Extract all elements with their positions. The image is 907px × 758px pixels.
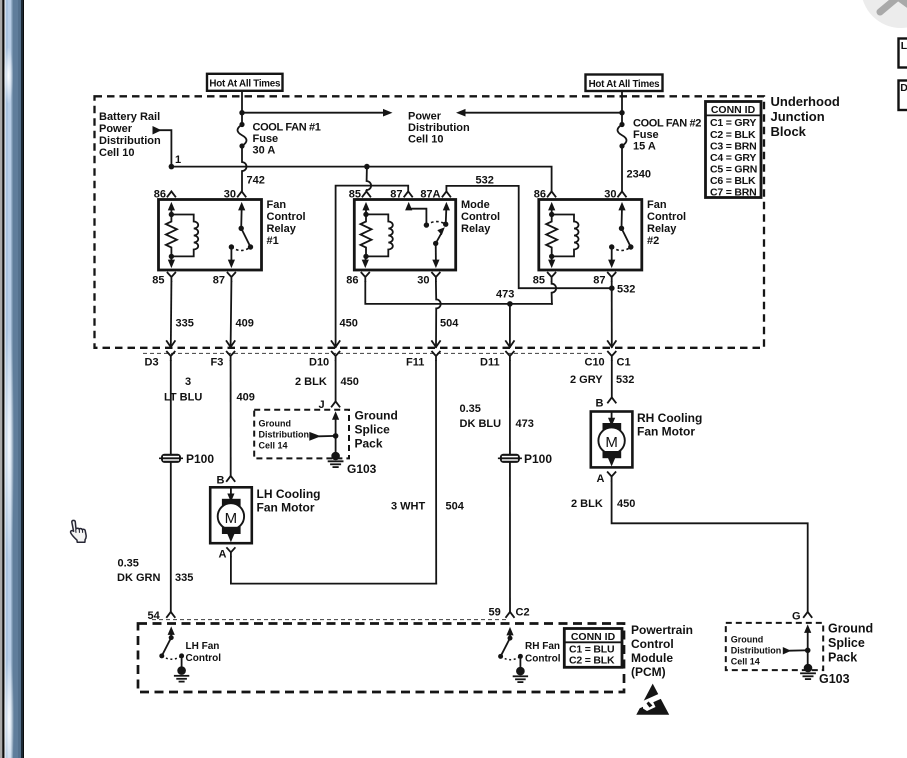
svg-text:2 BLK: 2 BLK	[295, 376, 327, 388]
svg-text:30: 30	[604, 189, 616, 201]
svg-text:C10: C10	[585, 357, 605, 369]
ground G103 (splice 2)	[801, 664, 815, 679]
wire: power distribution feed right with arrow	[242, 112, 384, 114]
svg-text:Battery Rail: Battery Rail	[99, 111, 160, 123]
pin D10	[331, 351, 340, 361]
svg-text:473: 473	[496, 289, 514, 301]
svg-text:Distribution: Distribution	[99, 135, 161, 147]
svg-text:DK GRN: DK GRN	[117, 572, 160, 584]
pin G	[803, 612, 812, 618]
svg-text:LT BLU: LT BLU	[164, 392, 202, 404]
node: Hot At All Times label 1	[207, 74, 283, 91]
svg-text:Control: Control	[186, 653, 222, 664]
svg-text:CONN ID: CONN ID	[571, 631, 616, 643]
svg-text:A: A	[597, 473, 605, 485]
svg-text:Control: Control	[267, 211, 306, 223]
svg-text:Junction: Junction	[771, 109, 825, 124]
grommet P100 left	[159, 454, 183, 463]
svg-text:504: 504	[446, 501, 465, 513]
svg-text:Control: Control	[631, 637, 674, 651]
fuse F2 COOL FAN #2 15A	[621, 91, 623, 125]
ground G103 (splice 1)	[329, 452, 343, 467]
svg-text:C7 = BRN: C7 = BRN	[710, 187, 757, 199]
svg-text:15 A: 15 A	[633, 141, 656, 153]
LH cooling fan motor M1	[210, 487, 252, 543]
svg-text:Fan Motor: Fan Motor	[257, 501, 315, 515]
wire: RH motor A down, right, down to pin G	[612, 482, 808, 612]
svg-text:742: 742	[247, 175, 265, 187]
splice pack 2 internals	[804, 624, 811, 633]
svg-text:#1: #1	[267, 235, 279, 247]
wire: relay K2 85 down with hop, to 473 line	[551, 282, 553, 284]
svg-text:Power: Power	[99, 123, 133, 135]
svg-text:Relay: Relay	[267, 223, 297, 235]
node 1	[169, 164, 175, 170]
wire: Hot1 down to fuse F1	[241, 91, 243, 125]
relay K1 pin 87	[227, 272, 236, 282]
svg-text:P100: P100	[186, 452, 214, 466]
svg-text:Ground: Ground	[355, 409, 398, 423]
mode relay pin 87A	[442, 191, 451, 197]
wire 335: relay K1 85 to D3	[170, 282, 173, 347]
wire 450: horizontal to mode relay 87, down to D10	[336, 186, 409, 347]
svg-text:1: 1	[175, 154, 181, 166]
pin 54	[166, 612, 175, 618]
svg-text:30 A: 30 A	[253, 145, 276, 157]
wire: D11 down to pin 59/C2	[509, 361, 511, 612]
wire: LH motor A down, right to 504 vertical	[231, 557, 436, 583]
bus wire node1 to relay K2 pin 86	[171, 167, 551, 191]
wire: tap down to mode relay 85 with hop	[366, 167, 368, 181]
svg-text:D: D	[900, 82, 907, 94]
splice arrow S2	[783, 647, 791, 655]
svg-text:2340: 2340	[627, 169, 651, 181]
svg-text:Pack: Pack	[828, 651, 857, 665]
RH cooling fan motor M2	[591, 412, 633, 468]
node 532	[609, 285, 615, 291]
wire 409: relay K1 87 to F3	[230, 282, 233, 347]
pin J	[331, 401, 340, 407]
svg-text:C1: C1	[617, 357, 631, 369]
svg-text:Distribution: Distribution	[408, 122, 470, 134]
svg-text:Cell 10: Cell 10	[99, 147, 134, 159]
svg-text:Underhood: Underhood	[771, 94, 840, 109]
grommet P100 right	[498, 454, 522, 463]
svg-text:COOL FAN #2: COOL FAN #2	[633, 118, 701, 130]
fuse F1 COOL FAN #1 30A	[238, 122, 247, 149]
svg-text:0.35: 0.35	[460, 403, 481, 415]
LH fan control driver Q1	[159, 626, 188, 681]
svg-text:87: 87	[390, 189, 402, 201]
wire 504: mode 30 down to F11 with hop	[435, 282, 437, 299]
svg-text:Control: Control	[461, 211, 500, 223]
pin 59 / C2	[506, 612, 515, 618]
svg-text:Fuse: Fuse	[253, 133, 279, 145]
relay K2 pin 87	[607, 272, 616, 282]
LH motor pin B	[226, 476, 235, 482]
battery rail feed arrow	[153, 126, 162, 135]
Powertrain Control Module boundary	[138, 624, 624, 693]
svg-text:C5 = GRN: C5 = GRN	[710, 164, 757, 176]
pin D3	[166, 351, 175, 361]
wire: F3 down to LH motor B	[230, 361, 232, 475]
svg-text:Hot At All Times: Hot At All Times	[209, 78, 281, 89]
scroll-top button (top right, cut)	[861, 0, 907, 28]
svg-text:Ground: Ground	[259, 419, 292, 429]
svg-text:M: M	[225, 510, 238, 527]
svg-text:86: 86	[534, 189, 546, 201]
svg-text:Control: Control	[647, 211, 686, 223]
CONN ID table (junction block)	[706, 102, 762, 199]
wire 532: 87A up-right-down to node 532	[446, 186, 611, 288]
svg-text:Fan Motor: Fan Motor	[637, 425, 695, 439]
wire 2340: fuse F2 to relay K2 pin 30	[621, 146, 623, 191]
svg-text:Relay: Relay	[647, 223, 677, 235]
svg-text:COOL FAN #1: COOL FAN #1	[253, 122, 321, 134]
svg-text:C1 = GRY: C1 = GRY	[710, 117, 756, 129]
svg-text:30: 30	[224, 189, 236, 201]
Underhood Junction Block boundary	[95, 96, 765, 347]
mouse cursor	[71, 520, 87, 542]
svg-text:504: 504	[440, 318, 459, 330]
svg-text:87A: 87A	[420, 189, 440, 201]
svg-text:DK BLU: DK BLU	[460, 418, 502, 430]
wire 473 horizontal: mode 86 to relay K2 85	[365, 282, 552, 304]
svg-text:86: 86	[346, 275, 358, 287]
svg-text:Fan: Fan	[267, 199, 287, 211]
svg-text:G: G	[792, 611, 801, 623]
svg-text:CONN ID: CONN ID	[711, 104, 756, 116]
svg-text:450: 450	[340, 318, 358, 330]
svg-text:Mode: Mode	[461, 199, 490, 211]
svg-text:B: B	[217, 475, 225, 487]
svg-text:Ground: Ground	[731, 635, 764, 645]
svg-text:LH Cooling: LH Cooling	[257, 487, 321, 501]
svg-text:Distribution: Distribution	[731, 646, 782, 656]
svg-text:Ground: Ground	[828, 622, 873, 636]
wire: power distribution feed left with arrow	[464, 112, 622, 114]
svg-text:C6 = BLK: C6 = BLK	[710, 175, 756, 187]
svg-text:Power: Power	[408, 111, 442, 123]
PCM connector face line	[152, 619, 506, 621]
RH fan control driver Q2	[498, 627, 527, 682]
svg-text:M: M	[605, 434, 618, 451]
relay K2 pin 86	[547, 191, 556, 197]
svg-text:D11: D11	[480, 357, 500, 369]
pin F3	[226, 351, 235, 361]
svg-text:85: 85	[152, 275, 164, 287]
svg-text:(PCM): (PCM)	[631, 665, 666, 679]
ground splice pack 1 box	[254, 410, 349, 459]
svg-text:335: 335	[175, 572, 193, 584]
ESD warning symbol	[635, 684, 671, 715]
svg-text:3 WHT: 3 WHT	[391, 501, 426, 513]
relay K2 pin 85	[547, 272, 556, 282]
pin D11	[505, 351, 514, 361]
svg-text:86: 86	[154, 189, 166, 201]
svg-text:473: 473	[516, 418, 534, 430]
svg-text:54: 54	[148, 610, 161, 622]
wire 504 lower: F11 down to corner	[435, 361, 437, 584]
mode relay pin 86	[361, 272, 370, 282]
svg-text:87: 87	[213, 275, 225, 287]
svg-text:A: A	[219, 549, 227, 561]
node 473	[507, 301, 513, 307]
svg-text:Powertrain: Powertrain	[631, 623, 693, 637]
node dot at fuse F1 top	[239, 110, 244, 115]
mode relay pin 87	[404, 191, 413, 197]
wire: D10 down to pin J (splice pack)	[335, 361, 337, 401]
svg-text:87: 87	[593, 275, 605, 287]
svg-text:LH Fan: LH Fan	[186, 641, 220, 652]
svg-text:Cell 10: Cell 10	[408, 134, 443, 146]
relay K2 pin 30	[618, 191, 627, 197]
svg-text:0.35: 0.35	[118, 558, 139, 570]
svg-text:Distribution: Distribution	[259, 430, 310, 440]
svg-text:C3 = BRN: C3 = BRN	[710, 140, 757, 152]
splice arrow S1	[309, 432, 321, 441]
svg-text:P100: P100	[524, 452, 552, 466]
svg-text:409: 409	[236, 318, 254, 330]
svg-text:Cell 14: Cell 14	[259, 441, 288, 451]
svg-text:409: 409	[237, 392, 255, 404]
svg-text:450: 450	[341, 376, 359, 388]
right edge panel boxes	[899, 39, 907, 68]
svg-text:L: L	[901, 40, 907, 52]
pin C10 / C1	[607, 351, 616, 361]
RH motor pin A	[607, 472, 616, 482]
LH motor pin A	[226, 547, 235, 557]
relay K1 Fan Control Relay #1	[159, 200, 262, 271]
svg-text:C2 = BLK: C2 = BLK	[569, 655, 615, 667]
mode control relay K3	[354, 200, 455, 271]
ground splice pack 2 box	[726, 623, 823, 670]
svg-text:Cell 14: Cell 14	[731, 657, 760, 667]
svg-text:85: 85	[349, 189, 361, 201]
svg-text:Hot At All Times: Hot At All Times	[589, 79, 661, 90]
svg-text:532: 532	[476, 175, 494, 187]
svg-text:F11: F11	[406, 357, 424, 369]
svg-text:Module: Module	[631, 651, 673, 665]
svg-text:Splice: Splice	[828, 636, 865, 650]
svg-text:RH Fan: RH Fan	[525, 641, 560, 652]
svg-text:F3: F3	[211, 357, 224, 369]
wire: node 473 down to D11	[509, 304, 511, 347]
svg-text:B: B	[596, 398, 604, 410]
svg-text:Splice: Splice	[355, 423, 391, 437]
svg-text:Fuse: Fuse	[633, 129, 659, 141]
svg-text:Fan: Fan	[647, 199, 667, 211]
splice pack 1 internals	[332, 411, 339, 420]
connector face line (junction block bottom)	[143, 352, 604, 354]
wire: C10 down to RH motor B	[611, 361, 613, 397]
svg-text:#2: #2	[647, 235, 659, 247]
svg-text:RH Cooling: RH Cooling	[637, 411, 702, 425]
RH motor pin B	[607, 397, 616, 403]
svg-text:59: 59	[489, 607, 501, 619]
svg-text:G103: G103	[347, 462, 377, 476]
svg-text:335: 335	[176, 318, 194, 330]
relay K1 pin 86	[167, 191, 176, 197]
svg-text:30: 30	[417, 275, 429, 287]
relay K1 pin 85	[167, 272, 176, 282]
svg-text:Pack: Pack	[355, 437, 383, 451]
window edge / scrollbar bar	[0, 0, 24, 758]
node dot at fuse F2 top	[619, 110, 624, 115]
relay K2 Fan Control Relay #2	[539, 200, 642, 271]
svg-text:G103: G103	[819, 672, 850, 686]
svg-text:Control: Control	[525, 654, 561, 665]
CONN ID table (PCM)	[564, 629, 622, 668]
pin F11	[432, 351, 441, 361]
svg-text:85: 85	[533, 275, 545, 287]
svg-text:532: 532	[617, 284, 635, 296]
svg-text:D10: D10	[309, 357, 329, 369]
svg-text:D3: D3	[145, 357, 159, 369]
node: Hot At All Times label 2	[586, 75, 663, 92]
svg-text:2 GRY: 2 GRY	[570, 374, 603, 386]
svg-text:C2 = BLK: C2 = BLK	[710, 129, 756, 141]
svg-text:Block: Block	[771, 124, 807, 139]
mode relay pin 30	[431, 272, 440, 282]
wire: D3 down to pin 54	[170, 361, 172, 612]
svg-text:C2: C2	[516, 607, 530, 619]
wire 742: fuse F1 to relay K1 pin30, hop over bus	[241, 146, 243, 162]
svg-text:3: 3	[185, 376, 191, 388]
relay K1 pin 30	[237, 191, 246, 197]
svg-text:450: 450	[617, 498, 635, 510]
svg-text:532: 532	[616, 374, 634, 386]
svg-text:C4 = GRY: C4 = GRY	[710, 152, 756, 164]
svg-text:Relay: Relay	[461, 223, 491, 235]
mode relay pin 85	[362, 191, 371, 197]
node dot: tap to mode relay 85	[364, 164, 370, 170]
svg-text:2 BLK: 2 BLK	[571, 498, 603, 510]
wire: relay K2 87 down through node 532 to C10	[611, 282, 613, 347]
